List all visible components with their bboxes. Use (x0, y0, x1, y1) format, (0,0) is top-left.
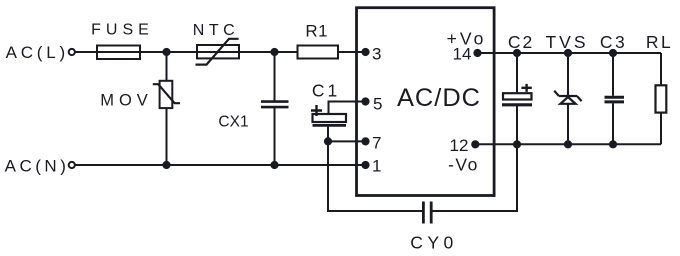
terminal AC(N) (69, 162, 75, 168)
junction top line at CX1 (270, 48, 278, 56)
junction +Vo rail at C2 (513, 49, 521, 57)
wire RL left leg (660, 53, 662, 144)
junction AC(N) at MOV (162, 161, 170, 169)
svg-text:12: 12 (450, 136, 469, 155)
wire AC(N) bottom line (75, 164, 366, 166)
pin 14 (473, 49, 481, 57)
terminal AC(L) (69, 49, 75, 55)
wire -Vo rail (475, 143, 661, 145)
capacitor C1 (311, 105, 346, 125)
svg-text:C1: C1 (312, 81, 340, 101)
svg-text:-Vo: -Vo (448, 155, 479, 175)
junction -Vo rail at TVS (564, 140, 572, 148)
fuse FUSE (97, 46, 140, 60)
svg-text:MOV: MOV (100, 92, 153, 110)
junction C1 bottom pin7 (324, 137, 332, 145)
wire C3 legs (612, 53, 614, 144)
svg-text:NTC: NTC (193, 22, 239, 39)
junction +Vo rail at TVS (564, 49, 572, 57)
svg-text:3: 3 (372, 44, 381, 63)
svg-text:FUSE: FUSE (91, 22, 154, 39)
wire CX1 branch upper (274, 52, 276, 101)
junction -Vo rail at C3 (609, 140, 617, 148)
wire CY0 right to C2 (431, 105, 517, 211)
svg-text:1: 1 (372, 157, 381, 176)
svg-text:AC(N): AC(N) (5, 157, 70, 176)
svg-text:CY0: CY0 (410, 232, 458, 252)
wire MOV branch vertical (166, 52, 168, 165)
svg-text:AC/DC: AC/DC (397, 84, 481, 112)
pin 3 (361, 48, 369, 56)
svg-text:RL: RL (646, 32, 673, 52)
diode TVS zener (554, 91, 581, 104)
svg-text:C2: C2 (508, 32, 534, 52)
wire pin5 to C1 (329, 102, 366, 115)
svg-text:CX1: CX1 (218, 114, 248, 131)
capacitor CY0 (423, 202, 431, 224)
svg-text:AC(L): AC(L) (6, 43, 69, 62)
pin 1 (361, 161, 369, 169)
varistor MOV (153, 81, 180, 108)
wire TVS legs (567, 53, 569, 144)
pin 12 (471, 140, 479, 148)
thermistor NTC (196, 39, 240, 65)
wire +Vo rail (478, 52, 662, 54)
wire CX1 branch lower (274, 107, 276, 165)
svg-text:+Vo: +Vo (447, 29, 487, 49)
junction top line at MOV (162, 48, 170, 56)
resistor R1 (298, 46, 339, 59)
resistor RL (656, 85, 667, 112)
svg-text:7: 7 (372, 133, 381, 152)
svg-text:5: 5 (373, 95, 382, 114)
junction AC(N) at CX1 (270, 161, 278, 169)
wire C1 bottom to CY0 (328, 127, 423, 211)
pin 7 (361, 137, 369, 145)
IC U1 AC/DC converter box (357, 8, 495, 196)
svg-text:R1: R1 (305, 22, 328, 41)
capacitor C2 electrolytic (502, 84, 532, 105)
capacitor C3 (605, 97, 625, 102)
wire pin7 branch (328, 140, 366, 142)
junction -Vo rail at C2 (513, 140, 521, 148)
pin 5 (361, 97, 369, 105)
capacitor CX1 (261, 102, 289, 108)
wire C2 top (516, 53, 518, 93)
junction +Vo rail at C3 (609, 49, 617, 57)
wire AC(L) top line (75, 51, 366, 53)
